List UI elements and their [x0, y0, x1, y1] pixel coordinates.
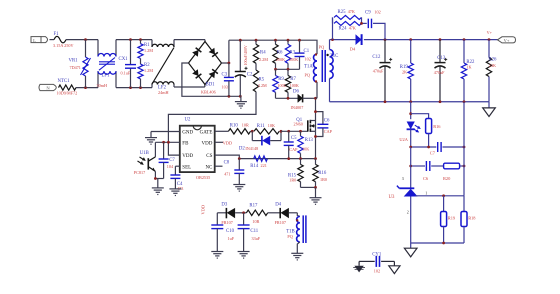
svg-text:33uF: 33uF	[252, 236, 261, 241]
capacitor C11	[238, 213, 261, 252]
svg-text:10K: 10K	[268, 123, 275, 128]
ground (CY1 secondary side)	[389, 261, 400, 273]
resistor R14	[250, 156, 267, 169]
svg-text:C3: C3	[222, 72, 228, 77]
svg-text:D6: D6	[293, 89, 299, 94]
capacitor C7 (compensation)	[409, 142, 465, 155]
svg-text:10K: 10K	[302, 147, 309, 152]
svg-text:C9: C9	[365, 11, 371, 16]
capacitor C5	[284, 131, 298, 158]
svg-text:C12: C12	[372, 55, 381, 60]
ground (C4 earth)	[169, 189, 181, 196]
capacitor CY1 (Y-cap)	[359, 252, 394, 273]
svg-text:R16: R16	[318, 171, 327, 176]
svg-text:NC: NC	[205, 165, 213, 170]
svg-text:FB: FB	[182, 141, 189, 146]
svg-text:24mH: 24mH	[158, 90, 168, 95]
svg-text:U3: U3	[389, 195, 395, 200]
svg-text:D4: D4	[350, 47, 356, 52]
wire feedback bottom row	[411, 242, 464, 245]
resistor R24 (snubber)	[333, 17, 362, 31]
ground (T1B earth)	[291, 253, 303, 260]
svg-text:7D471: 7D471	[70, 65, 81, 70]
svg-text:200K: 200K	[289, 57, 298, 62]
shunt regulator U3 (TL431)	[389, 147, 428, 243]
wire Q1 source down	[314, 131, 317, 158]
svg-text:VDD: VDD	[202, 141, 213, 146]
resistor R22	[461, 40, 475, 102]
ground (U1B emitter earth)	[152, 179, 164, 195]
svg-text:R25: R25	[338, 10, 347, 15]
capacitor C4	[170, 166, 183, 191]
svg-text:3.15A 250V: 3.15A 250V	[53, 43, 73, 48]
svg-text:2.2M: 2.2M	[259, 57, 268, 62]
transistor Q1 (MOSFET)	[294, 118, 316, 132]
svg-text:10R: 10R	[242, 123, 249, 128]
svg-text:R26: R26	[488, 58, 497, 63]
svg-text:GATE: GATE	[200, 131, 213, 136]
svg-text:3: 3	[402, 176, 404, 181]
ground (primary DC- earth)	[235, 96, 247, 108]
svg-text:CAP: CAP	[289, 147, 298, 152]
optocoupler U2A (LED)	[399, 122, 420, 148]
svg-text:IN4007: IN4007	[291, 105, 304, 110]
resistor R5	[253, 63, 267, 92]
svg-text:30mH: 30mH	[97, 83, 107, 88]
ground (C10 earth)	[211, 252, 223, 259]
svg-text:F1: F1	[54, 32, 60, 37]
svg-text:10R: 10R	[252, 219, 259, 224]
svg-text:VDD: VDD	[182, 154, 193, 159]
wire feedback left branch	[409, 102, 412, 119]
svg-text:VR1: VR1	[69, 58, 79, 63]
wire AC bottom to bridge	[174, 85, 205, 88]
thermistor NTC1	[57, 79, 78, 95]
svg-text:1uF: 1uF	[228, 236, 235, 241]
svg-text:200K: 200K	[276, 57, 285, 62]
svg-text:R16: R16	[433, 124, 441, 129]
ground (sense earth)	[310, 187, 322, 204]
wire VDD node	[217, 212, 226, 214]
svg-text:GND: GND	[182, 131, 193, 136]
wire clamp mid node	[274, 68, 299, 71]
svg-text:U2: U2	[185, 117, 191, 122]
wire U2 GATE to R10	[215, 130, 229, 132]
svg-text:V+: V+	[487, 30, 493, 35]
svg-text:2K: 2K	[402, 69, 407, 74]
resistor R19 (divider upper)	[441, 196, 456, 243]
capacitor C10	[211, 213, 234, 252]
svg-text:R7: R7	[290, 77, 296, 82]
wire U2 NC stub	[215, 165, 223, 167]
connector J1 pin L (AC live input)	[31, 37, 48, 43]
svg-text:221: 221	[261, 163, 267, 168]
wire sense bottom node	[301, 186, 317, 189]
svg-text:1.2M: 1.2M	[144, 68, 153, 73]
ground (C8 earth)	[233, 185, 245, 192]
wire secondary bottom rail	[330, 100, 490, 103]
wire U2 FB to optocoupler	[155, 141, 179, 144]
wire secondary top rail	[330, 38, 498, 41]
net label VDD (aux supply)	[200, 205, 205, 215]
ground (output return)	[483, 102, 496, 117]
resistor R16 (opto series)	[411, 114, 442, 147]
svg-text:NTC1: NTC1	[58, 79, 71, 84]
svg-text:CAP: CAP	[324, 129, 333, 134]
capacitor C3	[222, 63, 234, 96]
svg-text:24K: 24K	[489, 63, 496, 68]
wire R10 to R11	[251, 130, 254, 133]
wire bridge DC- to rail	[182, 63, 242, 98]
ground (U3 anode)	[404, 243, 417, 257]
wire clamp bottom node	[276, 97, 298, 100]
svg-text:102: 102	[374, 269, 380, 274]
capacitor C9 (snubber)	[360, 10, 385, 40]
svg-text:1: 1	[425, 190, 427, 195]
svg-text:R24: R24	[339, 26, 348, 31]
svg-text:C11: C11	[250, 229, 258, 234]
wire N rail to LF1	[76, 86, 98, 89]
fuse F1	[53, 32, 73, 48]
svg-text:2: 2	[407, 210, 409, 215]
transformer T1A primary winding	[304, 40, 324, 98]
svg-text:1.2M: 1.2M	[144, 48, 153, 53]
svg-text:U1B: U1B	[140, 151, 149, 156]
svg-text:C1: C1	[304, 49, 310, 54]
svg-text:R18: R18	[468, 215, 476, 220]
svg-text:VDD: VDD	[223, 140, 233, 145]
svg-text:C13: C13	[437, 56, 446, 61]
svg-text:V+: V+	[504, 38, 510, 43]
svg-text:C6: C6	[423, 176, 429, 181]
ground (CY1 primary side)	[353, 261, 365, 272]
svg-text:10D9/MF72: 10D9/MF72	[57, 91, 78, 96]
resistor R3	[285, 40, 298, 69]
resistor R16 (sense)	[313, 159, 327, 188]
svg-text:1K: 1K	[466, 64, 471, 69]
svg-text:R6: R6	[277, 50, 283, 55]
bridge rectifier BD1	[189, 42, 222, 95]
svg-text:C7: C7	[430, 150, 436, 155]
svg-text:47K: 47K	[348, 9, 355, 14]
svg-text:PQ: PQ	[287, 234, 292, 239]
wire R17 to D4	[242, 211, 280, 214]
svg-text:R5: R5	[259, 78, 265, 83]
optocoupler U1B (phototransistor)	[134, 142, 156, 178]
capacitor C8	[224, 159, 245, 185]
wire drain node	[314, 97, 317, 121]
diode D4 (output rectifier)	[350, 34, 362, 51]
resistor R17	[246, 203, 267, 224]
wire U3 ref row	[416, 194, 465, 197]
wire feedback right branch	[463, 102, 465, 196]
capacitor C13 (output electrolytic)	[434, 40, 447, 102]
resistor R20 (compensation)	[443, 163, 465, 181]
svg-text:1R0: 1R0	[320, 177, 327, 182]
svg-text:1R0: 1R0	[289, 178, 296, 183]
svg-text:CX1: CX1	[119, 57, 129, 62]
ground (U2 GND pin earth)	[145, 132, 157, 145]
svg-text:R11: R11	[257, 124, 265, 129]
resistor R26	[486, 40, 497, 102]
svg-text:D2: D2	[239, 147, 245, 152]
diode D4 (aux rectifier)	[275, 203, 298, 226]
varistor VR1	[69, 40, 91, 88]
diode D3	[221, 203, 246, 226]
wire bridge DC+ riser	[222, 40, 231, 64]
svg-text:104: 104	[167, 164, 174, 169]
svg-text:C8: C8	[224, 161, 230, 166]
svg-text:R13: R13	[305, 138, 314, 143]
wire U2 SEL pin	[175, 165, 179, 167]
svg-text:T1A: T1A	[304, 65, 313, 70]
svg-text:IN4148: IN4148	[245, 146, 258, 151]
wire U2 CS row	[215, 155, 317, 160]
wire R5 to FB net	[168, 92, 256, 155]
capacitor C6 (compensation)	[409, 161, 443, 181]
resistor R10	[228, 123, 250, 134]
svg-text:2N60: 2N60	[294, 122, 303, 127]
capacitor C1	[295, 40, 311, 69]
wire L rail to LF1	[66, 38, 98, 41]
connector J2 pin N (AC neutral input)	[39, 84, 56, 90]
capacitor CX1	[119, 40, 137, 88]
resistor R25 (snubber)	[333, 9, 362, 39]
svg-text:C7: C7	[169, 158, 175, 163]
resistor R15	[288, 159, 303, 188]
svg-text:C2: C2	[247, 73, 253, 78]
svg-text:BD1: BD1	[206, 83, 216, 88]
diode D2 (parallel with R11)	[239, 130, 283, 152]
svg-text:PQ: PQ	[319, 44, 324, 49]
diode D6	[291, 89, 316, 110]
svg-text:CS: CS	[206, 154, 212, 159]
svg-text:471: 471	[224, 172, 230, 177]
resistor R2	[138, 59, 153, 88]
svg-text:100uF/400V: 100uF/400V	[243, 45, 248, 65]
ground (C11 earth)	[238, 252, 250, 259]
svg-text:47K: 47K	[349, 25, 356, 30]
svg-text:VDD: VDD	[200, 205, 205, 215]
svg-text:103: 103	[222, 85, 228, 90]
svg-text:102: 102	[305, 57, 311, 62]
resistor R6	[273, 40, 285, 69]
svg-text:102: 102	[374, 10, 380, 15]
svg-text:R17: R17	[249, 203, 258, 208]
svg-text:R20: R20	[443, 176, 451, 181]
svg-text:C6: C6	[324, 118, 330, 123]
wire U2 GND pin	[151, 131, 180, 133]
svg-text:R9: R9	[278, 77, 284, 82]
resistor R11	[254, 123, 279, 134]
wire L input	[50, 39, 55, 41]
common-mode choke LF1	[97, 40, 117, 89]
svg-text:U2A: U2A	[399, 137, 408, 142]
wire gate row to Q1	[281, 130, 308, 133]
common-mode choke LF2	[152, 40, 174, 95]
svg-text:R19: R19	[448, 215, 456, 220]
transformer T1C secondary winding	[326, 40, 338, 102]
transformer T1 core	[322, 50, 325, 82]
svg-text:L: L	[33, 38, 36, 43]
svg-text:2.2M: 2.2M	[258, 83, 267, 88]
svg-text:R14: R14	[250, 164, 259, 169]
capacitor C12 (output electrolytic)	[372, 40, 392, 102]
wire top rail LF1 to LF2	[116, 38, 152, 41]
capacitor C2 (bulk electrolytic)	[235, 40, 253, 96]
svg-text:100K: 100K	[290, 83, 299, 88]
svg-text:C10: C10	[226, 229, 235, 234]
svg-text:PC817: PC817	[134, 170, 145, 175]
svg-text:SEL: SEL	[182, 165, 191, 170]
capacitor C6 (snubber at Q1)	[314, 110, 333, 136]
svg-text:R10: R10	[230, 124, 239, 129]
resistor R9	[273, 69, 287, 98]
svg-text:T1C: T1C	[330, 54, 339, 59]
svg-text:KBL406: KBL406	[201, 89, 216, 94]
svg-text:C5: C5	[291, 136, 297, 141]
svg-text:FR107: FR107	[275, 220, 286, 225]
wire U1B emitter node	[154, 177, 164, 180]
resistor R18 (divider lower)	[461, 196, 476, 243]
svg-text:PQ: PQ	[305, 73, 310, 78]
wire AC top to bridge	[174, 40, 205, 42]
svg-text:470uF: 470uF	[434, 70, 445, 75]
resistor R7	[285, 69, 299, 98]
wire DC+ rail	[229, 39, 317, 42]
wire bottom rail LF1 to LF2	[116, 86, 152, 89]
resistor R4	[253, 40, 268, 63]
svg-text:OB2535: OB2535	[196, 175, 210, 180]
resistor R13	[298, 131, 314, 158]
svg-text:470uF: 470uF	[373, 69, 384, 74]
svg-text:R4: R4	[260, 50, 266, 55]
resistor R1	[138, 40, 153, 59]
net label V+ and output connector	[487, 30, 516, 43]
svg-text:D4: D4	[275, 203, 281, 208]
resistor R19 (dummy load)	[400, 40, 414, 102]
svg-text:D3: D3	[221, 203, 227, 208]
net label VDD at U2	[215, 140, 232, 145]
capacitor C7 (FB filter)	[159, 142, 176, 178]
svg-text:LF1: LF1	[102, 74, 111, 79]
transformer T1B aux winding	[286, 213, 306, 254]
svg-text:0.1uF: 0.1uF	[121, 70, 131, 75]
svg-text:CY1: CY1	[372, 252, 382, 257]
IC U2 (PWM controller)	[180, 117, 215, 180]
